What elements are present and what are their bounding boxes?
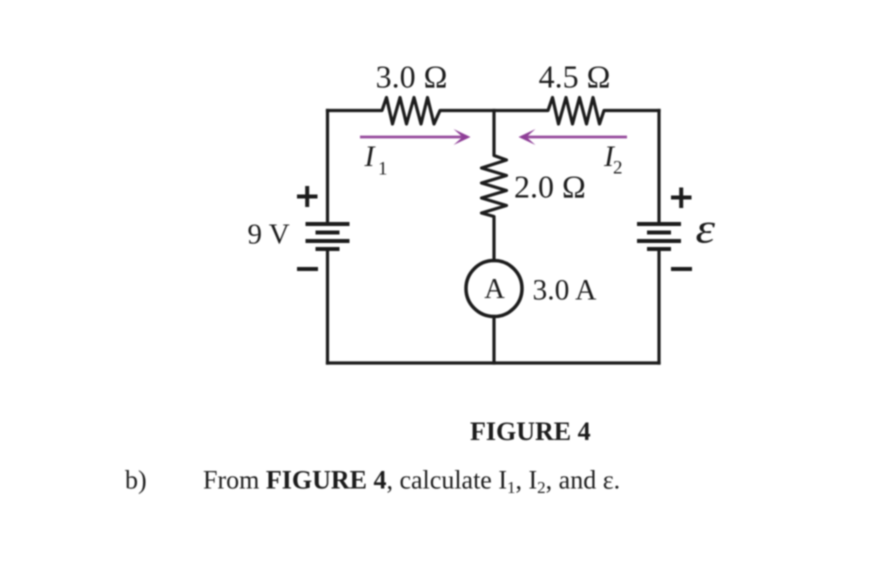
svg-text:A: A — [484, 274, 505, 305]
svg-text:1: 1 — [378, 159, 388, 180]
svg-text:2: 2 — [613, 158, 623, 179]
svg-text:From FIGURE 4, calculate I1, I: From FIGURE 4, calculate I1, I2, and ε. — [203, 466, 620, 498]
svg-text:3.0 Ω: 3.0 Ω — [376, 59, 448, 95]
svg-text:4.5 Ω: 4.5 Ω — [539, 59, 611, 95]
svg-text:FIGURE 4: FIGURE 4 — [470, 417, 591, 446]
svg-text:2.0 Ω: 2.0 Ω — [514, 169, 586, 205]
svg-text:I: I — [364, 140, 377, 173]
svg-text:b): b) — [125, 466, 147, 495]
svg-text:9 V: 9 V — [248, 219, 290, 251]
svg-text:ε: ε — [696, 205, 716, 252]
svg-text:3.0 A: 3.0 A — [533, 275, 598, 307]
